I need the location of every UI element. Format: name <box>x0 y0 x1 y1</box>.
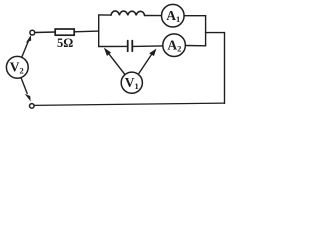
capacitor C <box>127 41 129 52</box>
bottom wire <box>35 103 225 105</box>
V1 probe wire (left, to node) <box>109 54 125 75</box>
wire <box>145 15 162 17</box>
wire <box>74 30 99 33</box>
wire <box>185 45 205 47</box>
wire <box>133 45 163 48</box>
inductor L <box>111 11 145 16</box>
terminal T2 (bottom input) <box>30 104 35 109</box>
V2 probe wire to T2 <box>21 78 27 94</box>
right edge wire <box>224 33 226 104</box>
wire <box>99 14 111 16</box>
V2 probe wire to T1 <box>22 42 29 58</box>
terminal T1 (top input) <box>30 30 35 35</box>
connector wire <box>206 32 225 34</box>
join vertical wire <box>205 16 207 46</box>
svg-text:5Ω: 5Ω <box>57 36 73 50</box>
wire <box>35 31 55 34</box>
ammeter A1 <box>162 4 185 27</box>
wire (bottom branch left) <box>99 45 127 47</box>
V1 probe wire (right, to A2 input) <box>139 55 152 74</box>
wire <box>184 15 206 17</box>
resistor R1 <box>55 29 74 35</box>
ammeter A2 <box>163 34 186 57</box>
node vertical wire <box>98 15 100 47</box>
voltmeter V1 <box>121 72 142 93</box>
voltmeter V2 <box>6 56 28 78</box>
